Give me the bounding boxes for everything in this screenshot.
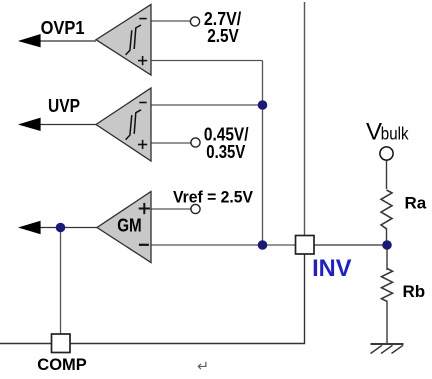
wire UVP output xyxy=(38,124,96,126)
comparator OVP1 (hysteresis) xyxy=(96,5,151,76)
terminal circle OVP1 threshold xyxy=(190,17,199,26)
pin INV pad xyxy=(296,236,315,255)
wire UVP + input xyxy=(151,142,191,144)
wire COMP left to edge xyxy=(0,343,52,345)
terminal circle Vref xyxy=(191,204,200,213)
junction dot divider xyxy=(382,240,392,250)
svg-text:Vref = 2.5V: Vref = 2.5V xyxy=(173,188,254,207)
svg-text:OVP1: OVP1 xyxy=(41,18,85,38)
resistor Ra xyxy=(381,190,392,229)
wire junction to Rb xyxy=(386,245,388,270)
svg-text:INV: INV xyxy=(312,255,351,282)
svg-text:bulk: bulk xyxy=(381,123,409,143)
wire GM output drop to COMP xyxy=(60,228,62,335)
junction dot bus/GM- xyxy=(258,240,268,250)
svg-text:UVP: UVP xyxy=(48,96,80,116)
wire UVP - input xyxy=(151,104,263,106)
wire Ra to junction xyxy=(386,228,388,246)
svg-text:COMP: COMP xyxy=(37,355,86,374)
svg-text:Ra: Ra xyxy=(405,194,427,213)
terminal circle UVP threshold xyxy=(191,138,200,147)
wire Vbulk terminal to Ra xyxy=(386,160,388,189)
comparator UVP (hysteresis) xyxy=(96,88,151,161)
wire GM + input xyxy=(151,208,191,210)
arrow GM output xyxy=(18,221,41,234)
arrow UVP output xyxy=(18,118,41,131)
arrow OVP1 output xyxy=(18,34,41,47)
junction dot GM output/COMP xyxy=(56,223,66,233)
wire OVP1 output xyxy=(38,40,96,42)
wire Rb to ground xyxy=(386,301,388,345)
wire INV top riser xyxy=(304,2,306,236)
wire COMP right run xyxy=(70,254,305,344)
wire GM - input to INV xyxy=(151,244,296,246)
svg-text:↵: ↵ xyxy=(197,359,209,375)
wire vertical bus INV net xyxy=(262,61,264,246)
svg-text:2.5V: 2.5V xyxy=(207,26,239,46)
svg-text:0.35V: 0.35V xyxy=(206,142,245,162)
svg-text:V: V xyxy=(366,118,382,145)
terminal circle Vbulk xyxy=(380,147,393,160)
wire OVP1 - input xyxy=(151,20,191,22)
wire GM output xyxy=(38,227,97,229)
junction dot bus/UVP- xyxy=(258,100,268,110)
svg-text:GM: GM xyxy=(117,216,142,236)
wire OVP1 + input (to bus) xyxy=(151,60,263,62)
pin COMP pad xyxy=(52,334,71,353)
resistor Rb xyxy=(382,269,393,302)
op-amp GM error amplifier xyxy=(97,192,151,263)
ground xyxy=(371,344,404,354)
wire INV to divider junction xyxy=(314,244,387,246)
svg-text:Rb: Rb xyxy=(403,282,426,301)
